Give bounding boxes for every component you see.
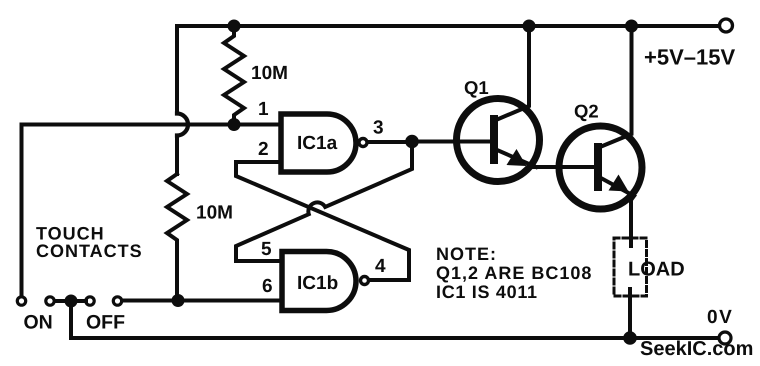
svg-text:4: 4: [375, 256, 386, 277]
wire: horizontal touch input to pin 1: [22, 123, 280, 127]
wire: cross-coupling from node 3 down and diagonally to pin 5 (with hop): [236, 142, 412, 262]
node: contacts center junction to 0V: [65, 295, 78, 308]
svg-text:6: 6: [262, 276, 273, 297]
IC1b output bubble: [361, 277, 369, 285]
svg-text:IC1a: IC1a: [297, 133, 338, 154]
NAND gate IC1a: [281, 114, 356, 172]
svg-text:OFF: OFF: [86, 312, 125, 334]
IC1a output bubble: [359, 139, 367, 147]
node: junction top rail / Q2 collector: [625, 20, 638, 33]
Q1 emitter arrowhead: [507, 149, 527, 166]
touch contact OFF: left terminal: [86, 297, 94, 305]
NAND gate IC1b: [282, 252, 356, 311]
wire: ON right terminal to center node: [55, 299, 86, 303]
svg-text:LOAD: LOAD: [628, 259, 685, 281]
wire: Q1 emitter to Q2 base: [534, 165, 594, 169]
svg-text:+5V–15V: +5V–15V: [644, 45, 735, 70]
node: output 3 junction: [405, 135, 419, 149]
svg-text:10M: 10M: [251, 63, 288, 84]
node: junction R1 bottom / pin1 wire: [228, 118, 241, 131]
wire: pin 6 from OFF contact to IC1b: [122, 299, 280, 303]
svg-text:Q2: Q2: [574, 101, 599, 122]
wire: hop of left vertical over horizontal input wire: [177, 114, 188, 136]
resistor 10M (lower, R2): [167, 174, 187, 301]
Q1 emitter lead: [497, 150, 536, 167]
svg-text:IC1b: IC1b: [297, 273, 338, 294]
svg-text:Q1,2 ARE BC108: Q1,2 ARE BC108: [436, 263, 592, 283]
wire: cross-coupling from pin 2 diagonally to output 4: [236, 162, 409, 280]
Q2 base bar: [594, 143, 602, 191]
terminal: 0V: [719, 332, 731, 344]
wire: LOAD bottom to 0V rail: [628, 289, 632, 338]
svg-text:3: 3: [373, 118, 384, 139]
svg-text:0V: 0V: [707, 307, 733, 328]
svg-text:ON: ON: [24, 312, 53, 334]
wire: 0V bottom rail: [71, 336, 717, 340]
Q1 base bar: [490, 115, 498, 164]
wire: +V top rail: [177, 24, 718, 28]
transistor Q1 (BC108 NPN): [457, 99, 540, 182]
wire: IC1a output (pin 3) to node: [368, 140, 413, 144]
wire: center node down to 0V rail: [69, 301, 73, 338]
touch contact ON: right terminal: [46, 297, 54, 305]
svg-text:2: 2: [258, 139, 269, 160]
wire: node 3 to Q1 base: [412, 140, 490, 144]
node: junction R2 bottom / pin6 wire: [172, 294, 185, 307]
terminal: +V supply: [720, 19, 733, 32]
svg-text:CONTACTS: CONTACTS: [36, 241, 143, 261]
node: junction top rail / R1 top: [228, 20, 241, 33]
svg-text:NOTE:: NOTE:: [436, 244, 497, 264]
svg-text:5: 5: [261, 239, 272, 260]
touch contact OFF: right terminal: [113, 297, 121, 305]
Q2 emitter arrowhead: [609, 175, 629, 192]
node: junction 0V rail / LOAD: [623, 331, 637, 345]
svg-text:1: 1: [258, 99, 269, 120]
svg-text:IC1 IS 4011: IC1 IS 4011: [436, 282, 538, 302]
wire: left vertical below hop down to resistor R2 top: [175, 136, 179, 175]
resistor 10M (top, R1): [224, 26, 244, 125]
svg-text:Q1: Q1: [464, 77, 489, 98]
transistor Q2 (BC108 NPN): [559, 126, 642, 209]
Q1 collector lead: [496, 26, 529, 120]
wire: left vertical down to ON contact: [20, 125, 24, 295]
Q2 collector lead: [600, 26, 632, 147]
touch contact ON: left terminal: [17, 297, 25, 305]
node: junction top rail / Q1 collector: [523, 20, 536, 33]
svg-text:10M: 10M: [196, 203, 233, 224]
svg-text:SeekIC.com: SeekIC.com: [640, 338, 753, 360]
LOAD (dashed box): [614, 238, 647, 296]
Q2 emitter lead: [599, 177, 634, 246]
wire: left branch vertical from top rail down to hop: [175, 26, 179, 114]
